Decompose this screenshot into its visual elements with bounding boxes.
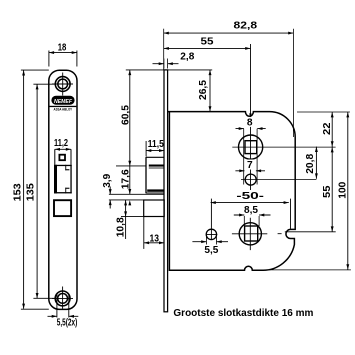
dim 13 arrows	[144, 241, 149, 244]
dim 17,6 arrows	[128, 189, 131, 194]
screw hole bottom	[55, 291, 70, 306]
wire ext 11,5	[145, 141, 147, 157]
dim line 26,5	[209, 70, 211, 112]
dim line 8	[236, 128, 266, 130]
svg-text:55: 55	[322, 185, 333, 198]
wire ext 153 top	[21, 69, 49, 71]
dim 10,8 arrows	[124, 200, 127, 205]
svg-text:11,2: 11,2	[54, 138, 68, 149]
logo pill NEMEF	[49, 96, 76, 112]
faceplate side view strip	[164, 70, 168, 312]
dim 22 arrows	[331, 112, 334, 117]
wire ext 82,8 right	[292, 29, 294, 137]
svg-text:5,5: 5,5	[204, 245, 218, 256]
svg-text:Grootste slotkastdikte 16 mm: Grootste slotkastdikte 16 mm	[173, 308, 313, 319]
svg-text:26,5: 26,5	[198, 80, 209, 100]
svg-text:17,6: 17,6	[121, 169, 132, 189]
dim 26,5 arrows	[209, 70, 212, 75]
wire ext 50 left	[210, 199, 212, 229]
dim line 10,8	[125, 200, 127, 239]
dim 100 arrows	[346, 112, 349, 117]
cylinder square hole	[245, 226, 258, 241]
dim line 13	[144, 242, 164, 244]
screw hole top	[55, 77, 70, 92]
aux latch square hole	[59, 155, 65, 161]
wire ext 82,8 left	[163, 29, 165, 70]
svg-text:11,5: 11,5	[148, 139, 164, 150]
svg-text:2,8: 2,8	[180, 52, 194, 63]
svg-text:ASSA ABLOY: ASSA ABLOY	[54, 108, 73, 112]
svg-text:153: 153	[13, 183, 24, 201]
svg-text:18: 18	[58, 42, 67, 53]
dim line 7	[235, 170, 265, 172]
svg-text:22: 22	[322, 122, 333, 135]
latch side view bottom band	[147, 189, 164, 191]
dim line 153	[23, 70, 25, 308]
wire ext bottom right	[262, 269, 351, 271]
dim 55 right arrows	[331, 147, 334, 152]
wire crosshair cylinder	[232, 218, 267, 250]
wire ext 135 top	[33, 83, 55, 85]
dim line 82,8	[164, 32, 294, 34]
dim line 11,5	[146, 150, 164, 152]
svg-text:7: 7	[247, 160, 253, 171]
dim line 60,5 and 17,6	[129, 70, 131, 194]
dim line 50	[211, 202, 289, 204]
wire ext cylinder right	[278, 232, 336, 234]
wire ext lines dim 5,5(2x)	[57, 294, 69, 318]
wire deadbolt bottom ext	[121, 216, 144, 218]
svg-text:3,9: 3,9	[102, 173, 113, 187]
wire ext lines dim 18	[49, 51, 77, 67]
dim line 18	[49, 52, 77, 54]
cylinder circle	[239, 223, 261, 245]
latch side view aux band	[149, 165, 164, 167]
dim 82,8 arrows	[164, 32, 169, 35]
wire latch bottom ext	[109, 193, 164, 195]
dim line 55 top	[164, 47, 251, 49]
dim line 8,5	[234, 214, 271, 216]
svg-text:8,5: 8,5	[244, 205, 258, 216]
dim line 3,9	[109, 187, 111, 209]
wire ext 60,5 top	[126, 69, 212, 71]
dim 18 arrows	[49, 51, 54, 54]
dim line 20,8	[315, 147, 317, 179]
hole 7	[245, 174, 256, 185]
dim line 135	[36, 84, 38, 298]
svg-text:20,8: 20,8	[305, 153, 316, 173]
dim 11,2 arrows	[55, 148, 60, 151]
wire centerline notch arrow	[249, 113, 251, 117]
svg-text:NEMEF: NEMEF	[54, 99, 73, 105]
latch side view top edge	[146, 156, 164, 158]
wire crosshair screw bottom	[52, 287, 73, 309]
wire ext 135 bottom	[33, 297, 55, 299]
dim 3,9 arrows	[109, 189, 112, 194]
dim line 5,5	[192, 241, 228, 243]
svg-text:10,8: 10,8	[116, 217, 127, 237]
latch side view front face	[145, 157, 147, 193]
dim 135 arrows	[36, 84, 39, 89]
svg-text:13: 13	[150, 233, 160, 244]
wire crosshair screw top	[52, 73, 73, 96]
wire ext 2,8	[164, 59, 168, 69]
dim 7 arrows	[239, 169, 244, 172]
latch bracket left view	[54, 165, 164, 194]
dim line 100	[347, 112, 349, 270]
dim line 5,5(2x)	[48, 315, 79, 317]
wire centerline follower horizontal	[232, 146, 335, 148]
latch side view bottom edge	[146, 192, 164, 194]
dim 11,5 arrows	[146, 149, 151, 152]
svg-text:100: 100	[337, 181, 348, 198]
dim 8 arrows	[239, 127, 244, 130]
arrowheads	[22, 32, 349, 318]
dim line 22 and 55 right	[331, 112, 333, 232]
svg-text:82,8: 82,8	[234, 21, 258, 32]
svg-text:135: 135	[26, 183, 37, 201]
wire ext 8,5	[244, 216, 259, 226]
wire ext 50 right	[290, 199, 292, 229]
deadbolt square hole left view	[54, 200, 71, 216]
wire ext 5,5	[206, 237, 216, 245]
wire ext right top	[297, 111, 350, 113]
dim 2,8 arrows	[159, 62, 164, 65]
wire ext 13	[143, 217, 145, 249]
dim 5,5(2x) arrows	[52, 315, 57, 318]
wire centerline hole7 horizontal	[241, 179, 316, 181]
dim 20,8 arrows	[315, 147, 318, 152]
dim 50 arrows	[211, 201, 216, 204]
dim line 2,8	[153, 63, 179, 65]
svg-text:55: 55	[201, 36, 214, 47]
deadbolt side view	[144, 200, 165, 217]
wire ext 8 and 7	[244, 129, 257, 185]
dim 5,5 arrows	[201, 240, 206, 243]
hole 5,5	[206, 229, 216, 239]
lock case outline	[168, 112, 295, 271]
svg-text:-50-: -50-	[236, 191, 264, 202]
wire ref 17,6 top	[116, 165, 146, 167]
wire deadbolt top ext	[109, 199, 164, 201]
wire ext lines dim 11,2	[55, 149, 71, 165]
dim 60,5 arrows	[128, 70, 131, 75]
svg-text:8: 8	[247, 117, 253, 128]
logo bar	[49, 106, 76, 107]
dim line 11,2	[55, 148, 71, 150]
follower square hole	[245, 141, 257, 154]
wire ext 153 bottom	[21, 308, 49, 310]
follower circle	[239, 135, 263, 159]
svg-text:60,5: 60,5	[120, 105, 131, 125]
wire crosshair 5,5	[206, 229, 217, 240]
faceplate outline left view	[49, 70, 77, 309]
dim 8,5 arrows	[239, 214, 244, 217]
wire centerline follower vertical	[250, 44, 252, 190]
dim 55 top arrows	[164, 47, 169, 50]
svg-text:5,5(2x): 5,5(2x)	[57, 317, 78, 328]
dim 153 arrows	[22, 70, 25, 75]
